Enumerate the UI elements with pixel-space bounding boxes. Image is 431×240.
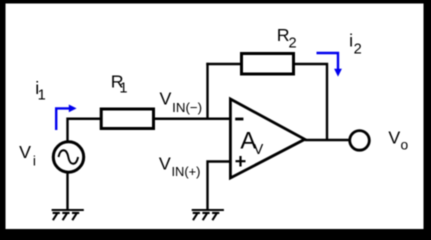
wire R2 right down to output node [294, 64, 328, 140]
wire source bottom to ground [66, 172, 68, 210]
wire R1 right to inverting input [155, 118, 230, 120]
svg-text:V: V [159, 154, 171, 174]
output terminal V_o [350, 131, 370, 151]
svg-text:i: i [349, 31, 353, 51]
svg-text:2: 2 [354, 42, 362, 58]
wire feedback top to R2 left [206, 63, 241, 65]
current arrow i1 (blue) [56, 108, 69, 130]
svg-text:IN(+): IN(+) [171, 164, 200, 179]
svg-text:1: 1 [119, 81, 127, 97]
op-amp minus sign [235, 118, 243, 121]
current arrow i2 (blue) [317, 53, 339, 70]
wire op-amp output [305, 139, 350, 141]
voltage source V_i [53, 142, 83, 172]
wire feedback tap (node VIN(-) up) [206, 63, 208, 119]
ground (below source) [52, 210, 84, 220]
svg-text:V: V [254, 142, 264, 158]
svg-text:IN(−): IN(−) [172, 100, 202, 115]
op-amp A_V triangle [230, 99, 304, 178]
svg-text:2: 2 [288, 35, 296, 51]
svg-text:i: i [33, 154, 36, 169]
op-amp plus sign [236, 156, 246, 167]
wire noninverting input to ground [208, 162, 231, 210]
svg-text:V: V [19, 142, 31, 162]
svg-text:V: V [388, 127, 400, 147]
svg-text:1: 1 [38, 88, 46, 104]
wire source top to R1 left [68, 119, 101, 141]
svg-text:V: V [160, 89, 172, 109]
resistor R2 [242, 54, 294, 75]
svg-text:o: o [400, 137, 408, 152]
resistor R1 [101, 109, 153, 129]
ground (below noninverting input) [192, 210, 224, 220]
